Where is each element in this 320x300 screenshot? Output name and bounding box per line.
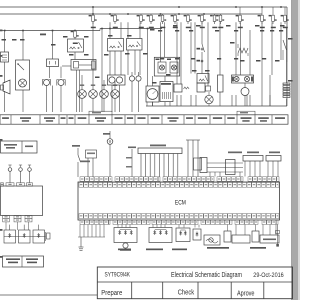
svg-text:Aprove: Aprove: [237, 290, 255, 297]
svg-text:SYT9C9I4K: SYT9C9I4K: [105, 271, 131, 278]
svg-text:ECM: ECM: [175, 200, 186, 207]
svg-text:Check: Check: [178, 290, 195, 297]
svg-text:Electrical Schematic Diagram: Electrical Schematic Diagram: [171, 270, 242, 279]
svg-text:Prepare: Prepare: [101, 290, 122, 297]
svg-text:29-Oct-2016: 29-Oct-2016: [253, 272, 284, 279]
